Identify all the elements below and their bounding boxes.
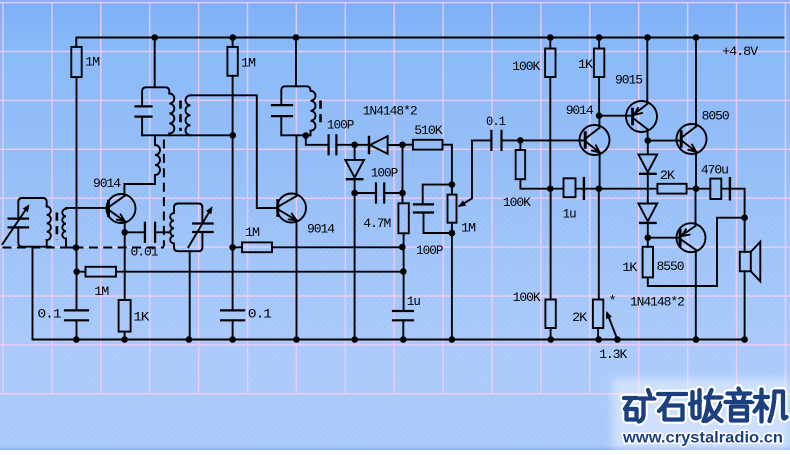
resistor R6 4.7M [398, 203, 408, 233]
svg-text:2K: 2K [660, 168, 675, 183]
wire R14 bottom to speaker return [648, 218, 745, 286]
resistor R14 1K [643, 247, 653, 278]
capacitor C7 100P [355, 192, 376, 194]
node dot R2 junction [73, 268, 80, 275]
node dot Q1 emitter junction [121, 229, 128, 236]
antenna tank coil L1 outline [18, 198, 46, 218]
wire output bus y=188.7 [599, 188, 710, 190]
node dot ground rail at speaker [741, 336, 748, 343]
svg-text:1.3K: 1.3K [599, 347, 627, 362]
wire to Q5 base [648, 140, 680, 142]
transformer T2 tank outline [142, 87, 169, 106]
coil L1 secondary winding [62, 209, 66, 239]
svg-text:470u: 470u [701, 163, 728, 178]
coil L1 primary winding [47, 207, 51, 241]
resistor R4 1M [227, 47, 237, 76]
transistor Q3 9014 [580, 125, 610, 155]
svg-text:1u: 1u [407, 294, 420, 309]
node dot speaker top [741, 214, 748, 221]
wire R4 bottom down [232, 76, 234, 310]
svg-text:9015: 9015 [615, 73, 643, 88]
wire Q2 collector up to T3 [296, 135, 298, 195]
diode D3 1N4148 [647, 141, 649, 155]
wire Q6 emitter up to output node [695, 189, 697, 226]
svg-text:0.1: 0.1 [248, 306, 272, 321]
svg-text:2K: 2K [572, 310, 587, 325]
node dot R5 left junction [229, 244, 236, 251]
node dot ground rail at Q6 [693, 336, 700, 343]
resistor R1 1M [71, 47, 81, 77]
node dot ground rail at Q2 [293, 336, 300, 343]
node dot at C6/D1/D2 junction [351, 142, 358, 149]
node dot ground rail at R11 [548, 336, 555, 343]
resistor R5 1M [242, 242, 272, 252]
resistor R2 1M [86, 267, 117, 277]
wire pot bottom to ground [451, 233, 453, 340]
wire pot wiper [460, 140, 473, 206]
node dot D2 output [351, 190, 358, 197]
node dot secondary/bias junction [73, 244, 80, 251]
node dot rail at R12 [596, 34, 603, 41]
node dot R6 bottom / R5 line [399, 244, 406, 251]
node dot Q3 emitter junction [596, 185, 603, 192]
node dot ground rail at L3 [186, 336, 193, 343]
svg-text:1N4148*2: 1N4148*2 [630, 295, 684, 310]
transistor Q1 9014 [107, 194, 136, 223]
node dot ground rail at C8 [400, 336, 407, 343]
node dot rail at R9 [547, 34, 554, 41]
svg-text:www.crystalradio.cn: www.crystalradio.cn [622, 430, 783, 447]
node dot pot bottom [449, 230, 456, 237]
wire Q5 collector to rail [695, 38, 697, 127]
node dot Q4 collector node [645, 137, 652, 144]
capacitor C2 0.1 [65, 310, 88, 320]
wire Q4 emitter to rail [646, 38, 648, 104]
svg-text:1M: 1M [245, 225, 260, 240]
node dot T2 bus / R4 [230, 132, 237, 139]
transistor Q6 8550 [677, 223, 706, 252]
svg-text:1K: 1K [622, 260, 637, 275]
capacitor C8 1u [393, 311, 413, 320]
svg-text:1M: 1M [85, 55, 100, 70]
resistor R3 1K [119, 300, 131, 332]
resistor R7 510K [413, 140, 443, 150]
wiper R15 to ground [607, 314, 617, 340]
svg-text:100P: 100P [371, 166, 399, 181]
wire Q1 emitter down [124, 221, 126, 300]
wire Q3 emitter down to R15 [598, 189, 600, 300]
svg-text:100P: 100P [416, 243, 444, 258]
node dot Q3 base / R10 [517, 137, 524, 144]
wire R1 bottom down left bias line [76, 77, 78, 310]
capacitor C10 0.1 [472, 139, 491, 141]
wire Q1 collector to L2 [124, 175, 155, 196]
transformer T2 core [179, 101, 182, 132]
svg-text:9014: 9014 [93, 176, 121, 191]
node dot pot top [449, 181, 456, 188]
coil T3 winding [311, 91, 316, 131]
svg-text:+4.8V: +4.8V [722, 44, 758, 59]
resistor R12 1K [594, 49, 604, 78]
wire R5 line to R6 bottom [272, 246, 402, 248]
node dot ground rail at C2 [73, 336, 80, 343]
node dot D4 / Q6 base [645, 234, 652, 241]
node dot rail at T3 [293, 34, 300, 41]
coil L2 oscillator feedback winding [155, 145, 160, 175]
wire tank L3 to ground rail [189, 251, 191, 339]
coil T2 primary [169, 94, 174, 134]
node dot R9/1u junction [547, 185, 554, 192]
svg-text:1K: 1K [133, 310, 149, 325]
wire diode chain D3 to D4 [647, 174, 649, 204]
svg-text:1M: 1M [461, 221, 476, 236]
diode D4 1N4148 [638, 204, 657, 222]
svg-text:100K: 100K [513, 290, 541, 305]
transistor Q4 9015 [626, 101, 657, 132]
svg-text:9014: 9014 [566, 103, 594, 118]
node dot rail at T2 [151, 34, 158, 41]
capacitor C4 0.1 [221, 310, 244, 320]
svg-text:*: * [609, 294, 616, 309]
wire tap to C6 [306, 136, 329, 145]
wire C2 to ground rail [76, 320, 78, 339]
svg-text:100K: 100K [503, 195, 531, 210]
transistor Q5 8050 [677, 124, 707, 154]
resistor R10 100K [516, 150, 526, 179]
wire +4.8V top supply rail [76, 38, 783, 48]
svg-text:0.1: 0.1 [486, 114, 506, 129]
node dot ground rail at R3 [121, 336, 128, 343]
wire to Q4 base [599, 115, 632, 117]
wire Q5 emitter to output node [695, 152, 697, 189]
svg-text:8550: 8550 [657, 259, 685, 274]
svg-text:4.7M: 4.7M [363, 216, 391, 231]
svg-text:1K: 1K [578, 57, 593, 72]
node dot ground rail at R15 wiper [614, 336, 621, 343]
diode D1 1N4148 [368, 136, 370, 154]
capacitor C9 100P (across pot) [423, 185, 452, 205]
wire D1 node down to C7 node [402, 145, 404, 193]
node dot D1 output [399, 142, 406, 149]
wire to Q6 base [648, 237, 680, 239]
resistor R9 100K [545, 49, 555, 78]
wire ground bottom rail [33, 247, 747, 340]
diode D2 1N4148 [354, 145, 356, 160]
variable capacitor CV1 (tuning gang a) [9, 219, 28, 228]
capacitor C6 100P [329, 135, 337, 154]
wire R3 to ground [124, 332, 126, 340]
wire supply to T3 [295, 38, 297, 87]
potentiometer R8 1M [451, 185, 453, 233]
node dot AGC line end [400, 268, 407, 275]
capacitor C3 (T2 tank) [136, 106, 152, 116]
wire T2 secondary to Q2 base [191, 95, 278, 208]
svg-text:1u: 1u [563, 206, 576, 221]
resistor R13 2K [657, 184, 686, 194]
wire L1 secondary top to Q1 base [66, 207, 107, 210]
transformer T3 core [319, 101, 322, 128]
capacitor C11 1u electrolytic [564, 178, 576, 197]
wire L1 secondary bottom to node A [66, 239, 76, 248]
node dot ground rail at D2 line [351, 336, 358, 343]
node dot rail at Q5 [693, 34, 700, 41]
svg-text:0.01: 0.01 [131, 245, 159, 260]
svg-text:0.1: 0.1 [37, 306, 61, 321]
capacitor C1 0.01 [125, 231, 145, 233]
wire T3 bottom [281, 134, 310, 136]
node dot ground rail at R15 [595, 336, 602, 343]
transformer T1 core [56, 213, 59, 241]
coil L3 winding [170, 213, 174, 244]
node dot output node (Q5 emitter / Q6 emitter) [693, 185, 700, 192]
node dot ground rail at pot [449, 336, 456, 343]
wire supply to T2 top [154, 38, 156, 88]
svg-text:100P: 100P [327, 117, 355, 132]
wire speaker to ground rail [744, 271, 746, 339]
transformer T3 tank outline [281, 86, 310, 105]
resistor R11 100K [545, 300, 555, 329]
node dot rail at R4 [230, 34, 237, 41]
variable capacitor CV2 (tuning gang b) [193, 224, 212, 233]
svg-text:100K: 100K [512, 59, 540, 74]
node dot Q3 collector / Q4 base [596, 112, 603, 119]
wire T2 bottom bus [142, 134, 233, 136]
oscillator tank L3 outline [174, 204, 202, 224]
svg-text:1N4148*2: 1N4148*2 [363, 104, 417, 119]
wire Q3 collector [598, 116, 600, 128]
wire Q4 collector down [647, 130, 649, 141]
transistor Q2 9014 [277, 194, 306, 223]
dashed gang link (tuning capacitors) horizontal [3, 247, 164, 249]
node dot T3 bottom tap [303, 132, 310, 139]
node dot ground rail at C4 [229, 336, 236, 343]
svg-text:1M: 1M [241, 56, 256, 71]
wire Q3 emitter [599, 153, 601, 189]
capacitor C12 470u electrolytic [710, 179, 721, 199]
coil T2 secondary [186, 95, 191, 135]
wire Q2 emitter to ground [296, 221, 298, 340]
node dot rail at Q4 [644, 34, 651, 41]
wire AGC feedback line y=271.7 [77, 271, 404, 273]
svg-text:510K: 510K [414, 123, 443, 138]
dashed gang link vertical / oscillator coil core [163, 140, 165, 247]
svg-text:1M: 1M [94, 284, 109, 299]
svg-text:9014: 9014 [307, 222, 335, 237]
wire Q6 collector to ground [695, 250, 697, 339]
node dot C7 right [399, 190, 406, 197]
speaker LS1 [740, 252, 751, 271]
svg-text:8050: 8050 [702, 109, 730, 124]
capacitor C5 (T3 tank) [272, 105, 292, 116]
potentiometer R15 2K preset [593, 300, 603, 329]
